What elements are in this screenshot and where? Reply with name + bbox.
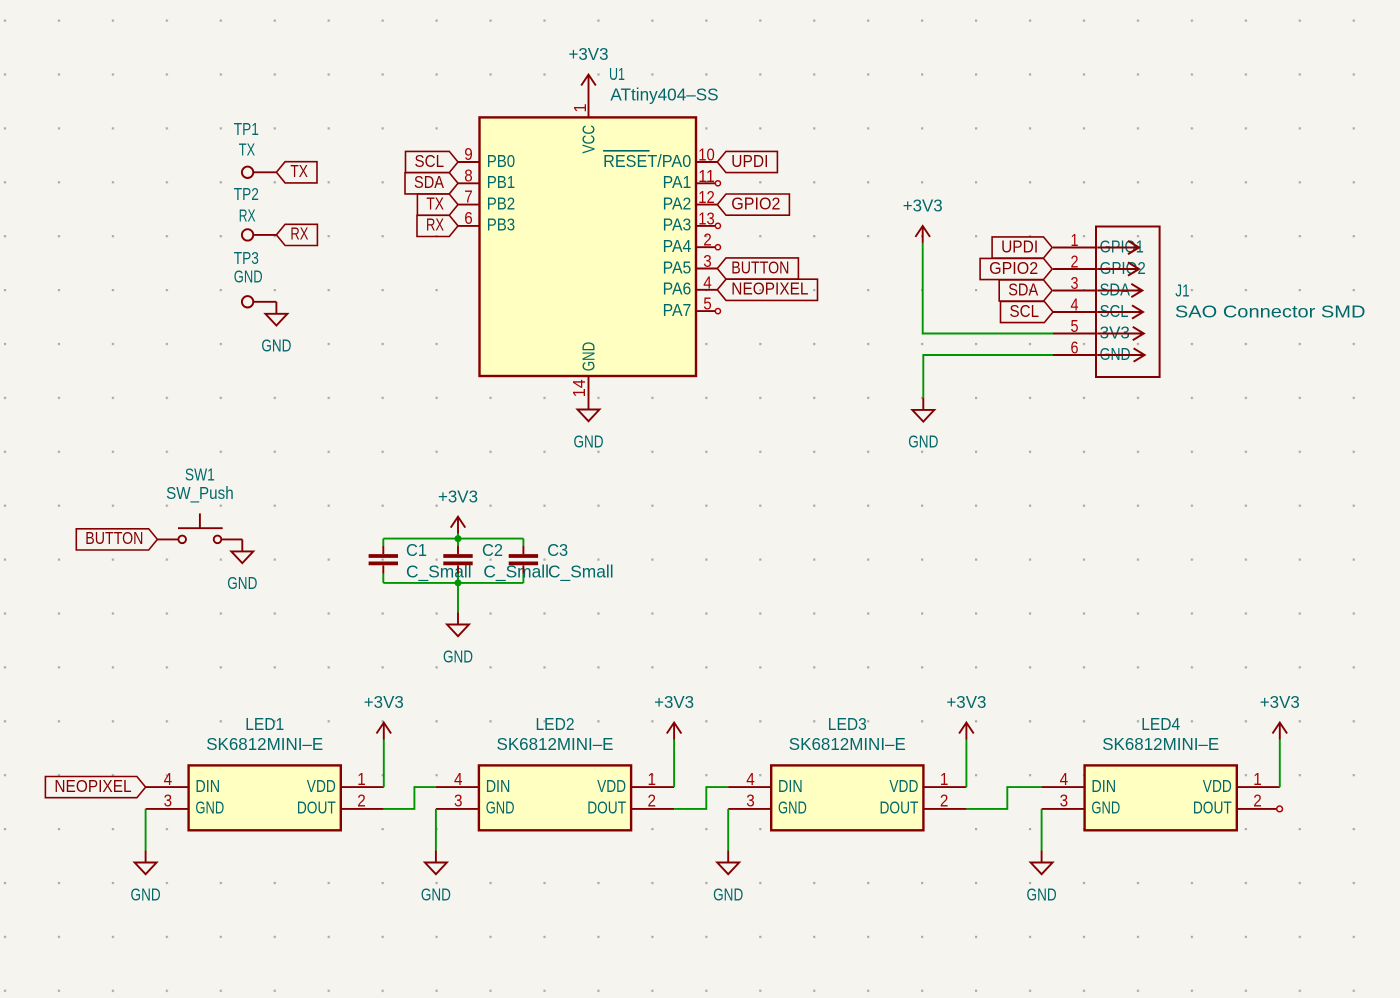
U1 pin 1 VCC (top) xyxy=(570,97,599,154)
junction at +3V3 rail xyxy=(455,535,462,542)
LED2 pin 3 GND xyxy=(436,791,515,818)
svg-text:RX: RX xyxy=(290,224,308,244)
LED3 pin 2 DOUT xyxy=(880,791,967,818)
svg-text:SCL: SCL xyxy=(1100,301,1129,321)
svg-text:GND: GND xyxy=(234,267,263,287)
svg-text:5: 5 xyxy=(1071,316,1079,336)
J1 pin 6 GND xyxy=(1053,338,1145,364)
global label TX at U1.PB2 xyxy=(417,193,458,215)
svg-text:DIN: DIN xyxy=(1091,776,1116,796)
svg-text:SDA: SDA xyxy=(1100,279,1131,299)
svg-text:GND: GND xyxy=(1091,798,1120,818)
svg-text:GND: GND xyxy=(579,342,599,372)
global label SCL at J1.4 xyxy=(1001,301,1054,323)
svg-text:LED3: LED3 xyxy=(828,714,867,734)
U1 pin 3 PA5 xyxy=(663,251,718,277)
svg-text:PA2: PA2 xyxy=(663,193,692,213)
svg-text:GPIO2: GPIO2 xyxy=(731,193,780,213)
svg-text:GND: GND xyxy=(1100,344,1131,364)
ground at LED1 xyxy=(131,851,161,905)
svg-text:SDA: SDA xyxy=(1008,279,1038,299)
LED1 pin 4 DIN xyxy=(146,769,220,796)
wire C3 top lead xyxy=(522,539,524,546)
svg-text:9: 9 xyxy=(464,144,473,164)
ground at LED2 xyxy=(421,851,451,905)
svg-text:+3V3: +3V3 xyxy=(364,692,404,712)
svg-text:TX: TX xyxy=(290,161,308,181)
svg-text:1: 1 xyxy=(648,769,657,789)
svg-text:BUTTON: BUTTON xyxy=(85,528,143,548)
LED3 pin 1 VDD xyxy=(889,769,966,796)
svg-text:RX: RX xyxy=(426,215,444,235)
global label NEOPIXEL at LED1 xyxy=(45,776,145,798)
power +3V3 at LED2 xyxy=(654,692,694,744)
U1 pin 7 PB2 xyxy=(458,187,515,214)
svg-text:4: 4 xyxy=(1071,295,1079,315)
svg-text:ATtiny404–SS: ATtiny404–SS xyxy=(610,85,718,105)
power +3V3 at LED4 xyxy=(1260,692,1300,744)
svg-text:13: 13 xyxy=(698,208,715,228)
wire GND rail to ground xyxy=(457,583,459,613)
svg-text:10: 10 xyxy=(698,145,715,165)
svg-text:2: 2 xyxy=(1253,791,1262,811)
global label UPDI at U1.PA0 xyxy=(717,151,777,173)
svg-text:+3V3: +3V3 xyxy=(903,196,943,216)
LED4 pin 1 VDD xyxy=(1203,769,1280,796)
capacitor C2 xyxy=(443,540,549,583)
svg-text:2: 2 xyxy=(703,230,712,250)
svg-text:C2: C2 xyxy=(482,540,503,560)
svg-text:LED2: LED2 xyxy=(536,714,575,734)
svg-text:4: 4 xyxy=(164,769,173,789)
LED2 pin 4 DIN xyxy=(436,769,511,796)
ground below U1 xyxy=(573,398,603,452)
svg-text:4: 4 xyxy=(454,769,463,789)
U1 pin 10 RESET/PA0 xyxy=(603,145,717,171)
svg-text:PA6: PA6 xyxy=(663,279,692,299)
svg-text:RX: RX xyxy=(239,206,256,226)
svg-text:6: 6 xyxy=(1071,338,1079,358)
LED2 pin 1 VDD xyxy=(597,769,674,796)
wire LED3 DOUT to LED4 DIN xyxy=(966,787,1041,809)
ground at capacitors xyxy=(443,613,473,667)
ground at TP3 xyxy=(261,302,291,356)
svg-text:UPDI: UPDI xyxy=(731,151,768,171)
test point TP3 xyxy=(234,248,277,307)
svg-text:PB3: PB3 xyxy=(487,215,516,235)
svg-text:1: 1 xyxy=(357,769,366,789)
svg-text:PA4: PA4 xyxy=(663,236,692,256)
connector J1 body xyxy=(1096,227,1160,378)
svg-text:GND: GND xyxy=(573,431,603,451)
svg-text:VDD: VDD xyxy=(597,776,626,796)
svg-text:PB1: PB1 xyxy=(487,172,516,192)
wire LED3 VDD pin to +3V3 xyxy=(965,745,967,788)
svg-text:TX: TX xyxy=(426,193,444,213)
svg-text:1: 1 xyxy=(940,769,949,789)
wire +3V3 rail (top of capacitors) xyxy=(383,538,523,540)
svg-text:DOUT: DOUT xyxy=(880,798,919,818)
svg-text:LED4: LED4 xyxy=(1141,714,1180,734)
svg-text:4: 4 xyxy=(1060,769,1069,789)
wire LED2 DOUT to LED3 DIN xyxy=(674,787,728,809)
svg-text:+3V3: +3V3 xyxy=(1260,692,1300,712)
svg-text:DIN: DIN xyxy=(778,776,803,796)
U1 pin 6 PB3 xyxy=(458,208,515,235)
wire C2 top lead xyxy=(457,539,459,546)
svg-text:5: 5 xyxy=(703,294,712,314)
svg-text:GND: GND xyxy=(443,646,473,666)
svg-text:C3: C3 xyxy=(547,540,568,560)
svg-text:+3V3: +3V3 xyxy=(654,692,694,712)
U1 pin 5 PA7 xyxy=(663,294,721,320)
svg-text:VDD: VDD xyxy=(1203,776,1232,796)
wire LED3 GND pin to ground xyxy=(727,809,729,851)
global label UPDI at J1.1 xyxy=(992,236,1052,258)
svg-text:SCL: SCL xyxy=(415,151,445,171)
svg-text:3: 3 xyxy=(164,791,173,811)
wire +3V3 to J1 pin 5 xyxy=(923,248,1053,334)
svg-text:PA5: PA5 xyxy=(663,257,692,277)
global label SDA at U1.PB1 xyxy=(405,172,458,194)
svg-text:GND: GND xyxy=(1027,884,1057,904)
LED4 pin 4 DIN xyxy=(1042,769,1117,796)
svg-text:SK6812MINI–E: SK6812MINI–E xyxy=(206,734,323,754)
svg-text:12: 12 xyxy=(698,187,715,207)
LED2 pin 2 DOUT xyxy=(587,791,674,818)
global label BUTTON at U1.PA5 xyxy=(717,257,798,279)
power +3V3 at LED1 xyxy=(364,692,404,744)
svg-text:1: 1 xyxy=(1253,769,1262,789)
wire LED1 DOUT to LED2 DIN xyxy=(384,787,436,809)
svg-text:SAO Connector SMD: SAO Connector SMD xyxy=(1175,302,1366,322)
svg-text:SK6812MINI–E: SK6812MINI–E xyxy=(497,734,614,754)
global label SDA at J1.3 xyxy=(999,279,1052,301)
capacitor C1 xyxy=(369,540,472,583)
svg-text:SCL: SCL xyxy=(1010,301,1040,321)
svg-text:DOUT: DOUT xyxy=(297,798,336,818)
global label RX at TP2 xyxy=(276,224,317,246)
U1 pin 13 PA3 xyxy=(663,208,721,234)
svg-text:SW_Push: SW_Push xyxy=(166,483,234,504)
U1 pin 12 PA2 xyxy=(663,187,718,213)
wire LED1 GND pin to ground xyxy=(145,809,147,851)
svg-text:DOUT: DOUT xyxy=(587,798,626,818)
svg-text:PA3: PA3 xyxy=(663,215,692,235)
svg-text:NEOPIXEL: NEOPIXEL xyxy=(731,279,808,299)
wire J1 pin 6 to GND xyxy=(923,355,1053,398)
global label GPIO2 at U1.PA2 xyxy=(717,193,789,215)
LED3 pin 3 GND xyxy=(728,791,807,818)
U1 pin 8 PB1 xyxy=(458,165,515,192)
LED3 SK6812MINI-E body xyxy=(771,765,923,830)
svg-text:+3V3: +3V3 xyxy=(946,692,986,712)
svg-text:DIN: DIN xyxy=(486,776,511,796)
svg-text:SW1: SW1 xyxy=(185,464,215,484)
LED2 SK6812MINI-E body xyxy=(479,765,631,830)
svg-text:J1: J1 xyxy=(1175,280,1189,300)
svg-text:SK6812MINI–E: SK6812MINI–E xyxy=(789,734,906,754)
IC U1 ATtiny404-SS body xyxy=(480,117,697,376)
svg-text:2: 2 xyxy=(357,791,366,811)
svg-text:GND: GND xyxy=(261,336,291,356)
U1 pin 2 PA4 xyxy=(663,230,721,256)
svg-text:GND: GND xyxy=(908,432,938,452)
svg-text:3: 3 xyxy=(1060,791,1069,811)
J1 pin 2 GPIO2 xyxy=(1053,252,1146,278)
svg-text:DIN: DIN xyxy=(195,776,220,796)
global label TX at TP1 xyxy=(276,161,317,183)
svg-text:3: 3 xyxy=(746,791,755,811)
svg-text:3: 3 xyxy=(1071,273,1079,293)
svg-text:1: 1 xyxy=(1071,230,1079,250)
LED3 pin 4 DIN xyxy=(728,769,803,796)
ground at LED3 xyxy=(713,851,743,905)
LED4 pin 2 DOUT xyxy=(1193,791,1277,818)
svg-text:UPDI: UPDI xyxy=(1001,236,1038,256)
svg-text:4: 4 xyxy=(746,769,755,789)
svg-text:LED1: LED1 xyxy=(245,714,284,734)
svg-text:PB0: PB0 xyxy=(487,151,516,171)
svg-text:VDD: VDD xyxy=(307,776,336,796)
LED1 pin 1 VDD xyxy=(307,769,384,796)
svg-text:RESET/PA0: RESET/PA0 xyxy=(603,151,691,171)
wire LED1 VDD pin to +3V3 xyxy=(383,745,385,788)
ground at J1 xyxy=(908,398,938,452)
svg-text:TP2: TP2 xyxy=(234,184,259,204)
svg-text:TP3: TP3 xyxy=(234,248,259,268)
svg-text:PA1: PA1 xyxy=(663,172,692,192)
LED1 pin 3 GND xyxy=(146,791,225,818)
U1 pin 11 PA1 xyxy=(663,166,721,192)
J1 pin 4 SCL xyxy=(1053,295,1143,321)
svg-text:SK6812MINI–E: SK6812MINI–E xyxy=(1102,734,1219,754)
wire LED2 VDD pin to +3V3 xyxy=(673,745,675,788)
svg-text:3: 3 xyxy=(454,791,463,811)
global label GPIO2 at J1.2 xyxy=(980,258,1052,280)
wire C1 bottom lead xyxy=(382,574,384,583)
svg-text:4: 4 xyxy=(703,272,712,292)
test point TP1 xyxy=(234,119,277,178)
LED4 SK6812MINI-E body xyxy=(1085,765,1237,830)
svg-text:+3V3: +3V3 xyxy=(438,486,478,506)
svg-text:NEOPIXEL: NEOPIXEL xyxy=(54,776,131,796)
svg-text:GND: GND xyxy=(421,884,451,904)
global label NEOPIXEL at U1.PA6 xyxy=(717,279,817,301)
power +3V3 at J1 xyxy=(903,196,943,248)
svg-text:11: 11 xyxy=(698,166,715,186)
U1 pin 4 PA6 xyxy=(663,272,718,298)
svg-text:SDA: SDA xyxy=(414,172,444,192)
svg-text:GND: GND xyxy=(195,798,224,818)
svg-text:TP1: TP1 xyxy=(234,119,259,139)
svg-text:GND: GND xyxy=(713,884,743,904)
wire LED4 GND pin to ground xyxy=(1041,809,1043,851)
global label SCL at U1.PB0 xyxy=(406,151,459,173)
svg-text:C1: C1 xyxy=(406,540,427,560)
J1 pin 3 SDA xyxy=(1053,273,1142,299)
svg-text:+3V3: +3V3 xyxy=(569,44,609,64)
svg-text:2: 2 xyxy=(648,791,657,811)
U1 pin 9 PB0 xyxy=(458,144,515,171)
svg-text:GND: GND xyxy=(131,884,161,904)
svg-text:3V3: 3V3 xyxy=(1100,322,1130,342)
power +3V3 at U1 VCC xyxy=(569,44,609,96)
svg-text:U1: U1 xyxy=(609,64,625,84)
svg-text:GND: GND xyxy=(227,573,257,593)
LED1 pin 2 DOUT xyxy=(297,791,384,818)
wire LED2 GND pin to ground xyxy=(435,809,437,851)
wire C2 bottom lead xyxy=(457,574,459,583)
svg-text:DOUT: DOUT xyxy=(1193,798,1232,818)
J1 pin 5 3V3 xyxy=(1053,316,1144,342)
svg-text:GND: GND xyxy=(778,798,807,818)
LED4 DOUT unconnected end xyxy=(1277,806,1283,812)
svg-text:BUTTON: BUTTON xyxy=(731,257,789,277)
svg-text:VCC: VCC xyxy=(579,125,599,154)
svg-text:GPIO2: GPIO2 xyxy=(989,258,1038,278)
svg-text:6: 6 xyxy=(464,208,473,228)
svg-text:14: 14 xyxy=(569,379,589,397)
wire LED4 VDD pin to +3V3 xyxy=(1279,745,1281,788)
U1 pin 14 GND (bottom) xyxy=(569,342,599,398)
svg-text:PB2: PB2 xyxy=(487,193,516,213)
svg-text:2: 2 xyxy=(940,791,949,811)
ground at SW1 xyxy=(227,539,257,593)
LED1 SK6812MINI-E body xyxy=(189,765,341,830)
svg-text:C_Small: C_Small xyxy=(548,561,614,582)
LED4 pin 3 GND xyxy=(1042,791,1121,818)
global label BUTTON at SW1 xyxy=(76,528,157,550)
svg-text:PA7: PA7 xyxy=(663,300,692,320)
svg-text:1: 1 xyxy=(570,104,590,113)
wire C3 bottom lead xyxy=(522,574,524,583)
wire GND rail (bottom of capacitors) xyxy=(383,582,523,584)
svg-text:7: 7 xyxy=(464,187,473,207)
ground at LED4 xyxy=(1027,851,1057,905)
capacitor C3 xyxy=(509,540,614,583)
J1 pin 1 GPIO1 xyxy=(1053,230,1144,256)
svg-text:TX: TX xyxy=(239,140,256,160)
power +3V3 at LED3 xyxy=(946,692,986,744)
svg-text:VDD: VDD xyxy=(889,776,918,796)
svg-text:GND: GND xyxy=(486,798,515,818)
wire C1 top lead xyxy=(382,539,384,546)
global label RX at U1.PB3 xyxy=(417,215,458,237)
svg-text:2: 2 xyxy=(1071,252,1079,272)
svg-text:3: 3 xyxy=(703,251,712,271)
test point TP2 xyxy=(234,184,277,240)
switch SW1 SW_Push xyxy=(157,464,242,543)
svg-text:8: 8 xyxy=(464,165,473,185)
power +3V3 at capacitors xyxy=(438,486,478,538)
junction at GND rail xyxy=(455,579,462,586)
